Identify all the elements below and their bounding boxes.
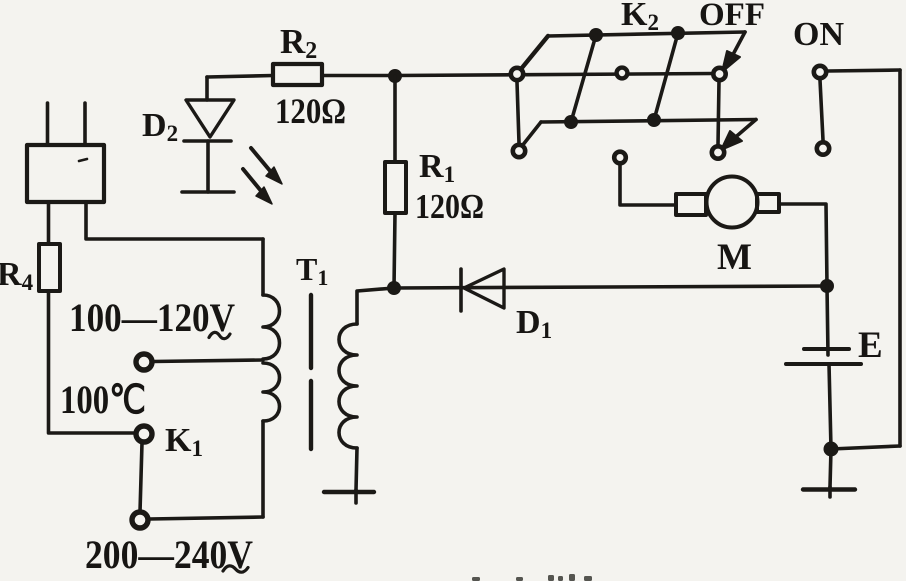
switch K2 terminal circle right-bottom — [712, 146, 724, 158]
svg-text:120Ω: 120Ω — [415, 187, 484, 226]
svg-text:ON: ON — [793, 16, 844, 53]
ground G1 (secondary) — [324, 490, 374, 503]
junction J2 — [820, 279, 834, 293]
switch K2 right terminal column wire — [718, 81, 719, 145]
junction J3 — [387, 281, 401, 295]
wire tap circle to primary tap — [153, 360, 263, 362]
switch K2 OFF arrow bottom — [721, 120, 756, 151]
wire plug left lead to R4 — [47, 202, 51, 244]
wire R1 to junction J3 — [394, 213, 395, 288]
svg-text:M: M — [717, 237, 752, 278]
svg-text:R4: R4 — [0, 256, 34, 295]
switch K2 terminal circle middle — [617, 68, 628, 79]
switch K2 wiper diagonal 2 — [654, 33, 678, 120]
cut-off caption marks at bottom edge — [472, 574, 592, 581]
resistor R4 — [39, 244, 60, 291]
switch K2 bottom rail contact dot 1 — [564, 115, 578, 129]
transformer T1 primary top lead — [261, 239, 265, 295]
wire J1 to K2 left terminal (middle rail) — [395, 74, 714, 76]
LED D2 emission arrow 2 — [243, 169, 272, 204]
transformer T1 secondary winding — [339, 324, 357, 448]
wire J4 to right edge — [831, 446, 900, 449]
switch K2 left lower diagonal — [522, 122, 541, 146]
resistor R1 — [385, 162, 406, 213]
LED D2 emission arrow 1 — [251, 148, 282, 184]
svg-text:D1: D1 — [516, 304, 552, 343]
switch K2 terminal circle left-top — [511, 68, 523, 80]
transformer T1 core — [309, 295, 313, 368]
svg-text:T1: T1 — [296, 251, 328, 290]
transformer T1 primary winding lower — [263, 363, 280, 421]
switch K2 bottom rail contact dot 2 — [647, 113, 661, 127]
plug PL (mains plug box) — [27, 103, 104, 202]
switch K2 motor terminal circle — [614, 152, 626, 164]
resistor R2 — [273, 64, 322, 85]
transformer T1 primary bottom lead — [261, 421, 265, 517]
svg-text:K2: K2 — [621, 0, 659, 35]
svg-text:100℃: 100℃ — [60, 377, 146, 422]
battery E — [786, 349, 861, 364]
svg-text:120Ω: 120Ω — [275, 91, 346, 131]
wire D2 top to R2 — [207, 76, 273, 78]
switch K2 OFF arrow top — [722, 32, 745, 72]
junction J4 — [824, 442, 839, 457]
LED D2 — [182, 77, 234, 192]
switch K2 top rail — [548, 32, 745, 36]
thermal switch K1 bottom circle — [132, 512, 148, 528]
svg-text:D2: D2 — [142, 107, 178, 146]
switch K2 left terminal column wire — [517, 82, 519, 143]
thermal switch K1 contact circle — [136, 426, 152, 442]
wire K1 contact down — [140, 443, 142, 512]
svg-text:R1: R1 — [419, 148, 455, 187]
main output wire J3 to J2 — [394, 286, 827, 288]
switch K2 terminal circle left-bottom — [513, 145, 525, 157]
tilde under V — [209, 332, 230, 338]
wire R4 to K1 contact — [49, 291, 135, 433]
wire J2 to battery E — [827, 286, 828, 355]
motor M — [676, 177, 779, 228]
diode D1 — [461, 269, 504, 311]
wire ON switch to right edge — [828, 70, 900, 71]
transformer T1 secondary top lead — [357, 288, 394, 324]
wire battery E to junction J4 — [829, 364, 831, 449]
junction J1 — [388, 69, 402, 83]
wire R2 to junction J1 — [322, 74, 395, 78]
ground G2 (battery) — [803, 449, 855, 497]
wire right edge vertical — [898, 70, 902, 446]
wire K2 motor terminal to motor M — [620, 164, 676, 205]
switch K2 top rail contact dot 1 — [589, 28, 603, 42]
svg-text:E: E — [858, 325, 883, 366]
tilde under V 2 — [223, 566, 248, 572]
switch K2 left upper diagonal — [521, 36, 548, 69]
switch K2 top rail contact dot 2 — [671, 26, 685, 40]
svg-text:R2: R2 — [280, 22, 317, 64]
wire motor M to junction J2 — [779, 204, 827, 286]
svg-text:OFF: OFF — [699, 0, 765, 33]
transformer T1 secondary bottom lead — [356, 448, 357, 490]
switch K2 bottom rail — [541, 120, 756, 123]
thermal switch K1 tap circle — [136, 354, 152, 370]
wire J1 down to R1 — [393, 76, 397, 162]
svg-text:200—240V: 200—240V — [85, 532, 253, 577]
wire bottom circle to primary bottom — [149, 517, 263, 519]
switch K2 terminal circle right-top — [713, 68, 725, 80]
wire plug right lead to transformer primary top — [86, 202, 263, 239]
switch K2 wiper diagonal 1 — [571, 35, 596, 122]
transformer T1 primary winding upper — [263, 295, 280, 359]
switch ON — [814, 66, 829, 155]
svg-text:K1: K1 — [165, 422, 203, 461]
